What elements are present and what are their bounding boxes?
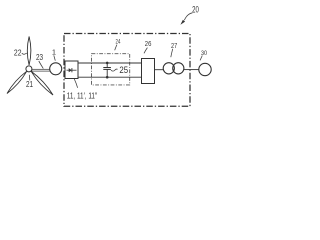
svg-text:26: 26: [145, 41, 152, 48]
svg-text:27: 27: [171, 43, 177, 50]
svg-text:1: 1: [52, 48, 56, 57]
svg-text:25: 25: [119, 65, 128, 75]
svg-text:30: 30: [201, 50, 207, 57]
svg-text:22: 22: [14, 49, 22, 58]
svg-text:21: 21: [26, 80, 34, 89]
svg-text:20: 20: [192, 5, 199, 15]
svg-text:11, 11′, 11″: 11, 11′, 11″: [67, 92, 98, 101]
svg-text:24: 24: [116, 39, 121, 46]
svg-text:23: 23: [36, 53, 44, 62]
